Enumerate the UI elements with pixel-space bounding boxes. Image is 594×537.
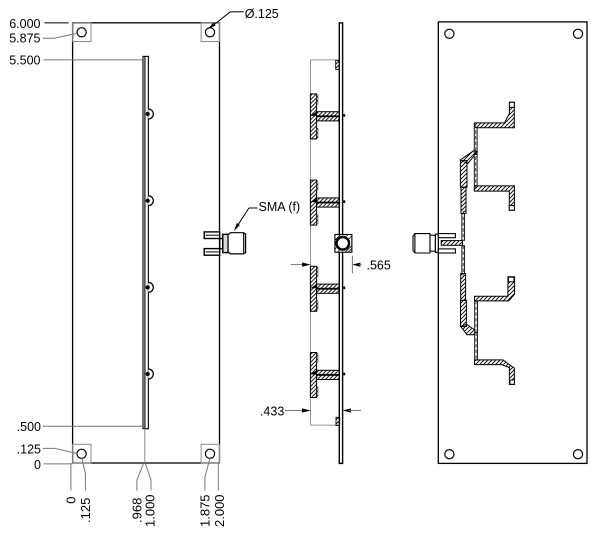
SMA connector (back view, left edge) — [413, 234, 455, 253]
attach bump 2 — [148, 196, 153, 206]
element silhouette outline (gray) — [311, 60, 340, 425]
element centerline extension — [144, 429, 146, 463]
svg-text:2.000: 2.000 — [212, 494, 227, 527]
panel outline front view — [73, 23, 220, 463]
mounting hole top-right — [205, 28, 214, 37]
mounting tab square top-left — [73, 23, 91, 42]
dim .968 leader — [137, 463, 144, 490]
station 3 tab (side view) — [310, 266, 345, 311]
SMA center pin (hatched) — [441, 241, 462, 246]
riser to arm 3 — [475, 301, 478, 333]
arm 3 + stub 3 (hatched) — [475, 277, 515, 301]
station 2 tab (side view) — [310, 180, 345, 225]
mounting hole top-left — [77, 28, 86, 37]
SMA connector (front view, right edge) — [204, 232, 228, 255]
svg-text:Ø.125: Ø.125 — [245, 7, 279, 21]
svg-text:0: 0 — [34, 458, 41, 472]
panel edge-on — [339, 23, 342, 464]
antenna element strip (front view) — [143, 56, 149, 428]
dim 1.875 leader — [205, 458, 210, 490]
svg-text:.565: .565 — [367, 258, 391, 272]
branch strip to arm 2 — [474, 155, 477, 186]
dim .125 leader — [82, 458, 86, 490]
element jog 1 (hatched) — [460, 151, 477, 164]
strip to arm 4 — [475, 333, 478, 361]
element overlap bar 1 (hatched) — [460, 161, 467, 188]
hole bottom-left — [445, 450, 454, 459]
attach bump 1 — [148, 109, 153, 119]
mounting tab square bottom-left — [73, 444, 91, 463]
mounting hole bottom-right — [205, 449, 214, 458]
svg-text:.500: .500 — [17, 420, 41, 434]
element stub 1 + arm 1 (hatched) — [474, 102, 514, 127]
dim 1.000 leader — [145, 463, 151, 490]
station 4 tab (side view) — [310, 353, 345, 398]
attach bump 4 — [148, 369, 153, 379]
SMA connector (edge view, square flange + circles) — [335, 229, 352, 252]
svg-text:1.875: 1.875 — [198, 494, 213, 527]
mounting hole bottom-left — [77, 449, 86, 458]
element bottom end (hatched) — [336, 417, 340, 425]
element strip above SMA pin — [462, 214, 465, 241]
dim 2.000 leader — [217, 463, 219, 491]
arm 2 + stub 2 (hatched) — [474, 186, 514, 210]
mounting tab square bottom-right — [201, 444, 219, 463]
arm 4 + stub 4 (hatched) — [475, 360, 515, 385]
hole top-left — [445, 29, 454, 38]
element strip below SMA pin — [462, 246, 465, 274]
svg-text:6.000: 6.000 — [9, 17, 40, 31]
dim 0 leader — [70, 463, 72, 491]
dim .433 — [260, 404, 361, 418]
mounting tab square top-right — [201, 23, 219, 42]
hole top-right — [573, 29, 582, 38]
station 1 tab (side view) — [310, 94, 345, 139]
svg-text:5.875: 5.875 — [9, 32, 40, 46]
dim .565 — [291, 256, 391, 274]
svg-text:0: 0 — [64, 497, 79, 504]
hole bottom-right — [573, 450, 582, 459]
svg-text:1.000: 1.000 — [142, 494, 157, 527]
svg-text:.433: .433 — [260, 404, 284, 418]
svg-text:.125: .125 — [17, 442, 41, 456]
svg-text:SMA (f): SMA (f) — [259, 200, 301, 214]
element overlap bar 2 (hatched) — [461, 274, 466, 301]
svg-text:.125: .125 — [78, 498, 93, 523]
element strip below arm1 — [474, 128, 477, 155]
panel outline back view — [438, 22, 587, 464]
element jog 2 (hatched) — [461, 324, 476, 334]
element top end (hatched) — [336, 60, 340, 69]
svg-text:5.500: 5.500 — [9, 53, 40, 67]
attach bump 3 — [148, 282, 153, 292]
